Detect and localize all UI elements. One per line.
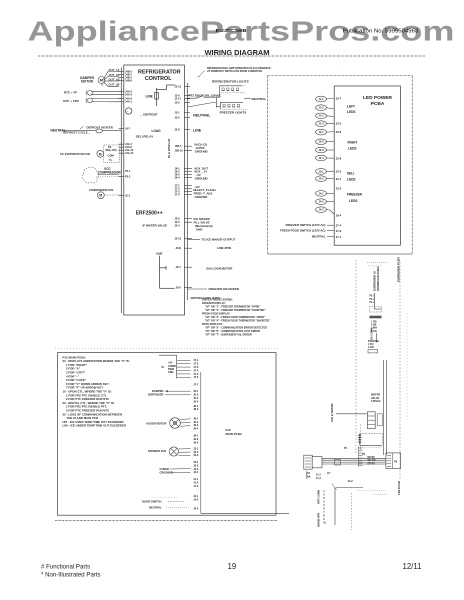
- svg-text:12/11: 12/11: [403, 562, 422, 571]
- dispenser section right dashed rail: [399, 262, 401, 480]
- power wire label group 1: [194, 143, 207, 154]
- svg-text:J2-4: J2-4: [193, 470, 199, 474]
- svg-text:FRZ DOOR: FRZ DOOR: [397, 481, 401, 495]
- svg-text:J7-1: J7-1: [193, 358, 199, 362]
- svg-text:ICE & WATER: ICE & WATER: [330, 403, 334, 421]
- svg-text:FRESH FOOD SWITCH (120V AC): FRESH FOOD SWITCH (120V AC): [280, 229, 326, 233]
- svg-text:J7-3: J7-3: [193, 365, 199, 369]
- svg-text:DELI RELAY: DELI RELAY: [136, 134, 154, 138]
- svg-text:GROUND: GROUND: [195, 149, 208, 153]
- svg-text:11-3: 11-3: [316, 477, 321, 480]
- svg-text:J5-4: J5-4: [193, 400, 199, 404]
- svg-text:J9-1: J9-1: [193, 434, 199, 438]
- svg-text:J7-4: J7-4: [175, 192, 181, 196]
- svg-text:REFRIGERATOR: REFRIGERATOR: [138, 70, 181, 76]
- svg-text:J8-2: J8-2: [193, 407, 199, 411]
- control box left pin labels J4B group: [125, 69, 134, 197]
- control box right pin labels: [175, 84, 184, 289]
- svg-text:J2-8: J2-8: [175, 128, 181, 132]
- svg-text:J9-3: J9-3: [193, 440, 199, 444]
- svg-text:"0F" OR "7" - DISPENSER FAIL E: "0F" OR "7" - DISPENSER FAIL ERROR: [205, 334, 252, 337]
- svg-text:GY: GY: [327, 472, 331, 475]
- svg-text:J7-4: J7-4: [336, 224, 342, 228]
- control box right pin ticks: [184, 87, 192, 288]
- svg-text:J4-2: J4-2: [348, 479, 354, 483]
- svg-text:NEUTRAL: NEUTRAL: [149, 505, 162, 509]
- svg-text:J2-1: J2-1: [318, 130, 324, 134]
- door switch dashed wire: [168, 500, 185, 502]
- svg-text:COM: COM: [108, 153, 115, 157]
- svg-text:TO ICE MAKER OUTPUT: TO ICE MAKER OUTPUT: [202, 238, 236, 242]
- auger motor wires: [180, 419, 190, 427]
- svg-text:J3-1: J3-1: [193, 446, 199, 450]
- right line bus wire: [186, 83, 188, 300]
- small inline marks: [335, 459, 341, 465]
- svg-text:LEDS: LEDS: [347, 110, 356, 114]
- svg-text:PCBA: PCBA: [371, 101, 385, 107]
- dispenser drop wire: [376, 333, 378, 343]
- svg-text:LIM - ICE UNDER TEMP TIME OUT: LIM - ICE UNDER TEMP TIME OUT EXCEEDED: [63, 424, 127, 428]
- evaporator fan motor: [97, 150, 104, 157]
- drawer fan symbol: [169, 447, 178, 456]
- svg-text:120VAC: 120VAC: [371, 399, 381, 403]
- svg-text:J2-8: J2-8: [336, 156, 342, 160]
- svg-text:J4A-3: J4A-3: [125, 93, 133, 97]
- svg-text:LED POWER: LED POWER: [363, 95, 393, 101]
- tiny pin column lower: [323, 490, 326, 525]
- svg-text:LEDS: LEDS: [347, 178, 356, 182]
- svg-text:J5B-10: J5B-10: [175, 149, 184, 153]
- dispenser connector stub rows: [370, 295, 376, 304]
- RTC FF connector: [88, 90, 93, 95]
- svg-text:HTR CONN: HTR CONN: [317, 490, 321, 504]
- water valve label cluster: [371, 393, 381, 404]
- svg-text:J3-3: J3-3: [336, 187, 342, 191]
- drawer fan wires: [178, 449, 190, 456]
- svg-text:J4A-14: J4A-14: [125, 151, 134, 155]
- dispenser vertical pair wires: [383, 360, 385, 455]
- note pointer line: [199, 71, 205, 77]
- damper motor wire labels: [109, 68, 120, 87]
- faint dashed rail far right: [406, 313, 408, 419]
- note about refrigerator lamp: [207, 67, 271, 73]
- control box internal line fuse symbol: [155, 85, 175, 106]
- dotted top connector line: [367, 262, 388, 264]
- svg-text:J1-4: J1-4: [318, 122, 324, 126]
- svg-text:FREEZER ICE MAKER: FREEZER ICE MAKER: [209, 287, 240, 291]
- compressor body: [82, 167, 98, 183]
- right leds label: [348, 141, 358, 151]
- svg-text:J2-3: J2-3: [318, 148, 324, 152]
- svg-text:J6-4: J6-4: [193, 427, 199, 431]
- svg-text:UI & DISPLAY: UI & DISPLAY: [167, 138, 171, 158]
- refrigerator control title: [138, 70, 181, 83]
- svg-text:DISPENSER: DISPENSER: [148, 392, 164, 396]
- evaporator fan wires: [119, 144, 124, 153]
- svg-text:J7-5: J7-5: [193, 372, 199, 376]
- wire color labels: [368, 457, 376, 466]
- svg-text:J3-1: J3-1: [318, 169, 324, 173]
- svg-text:J7-1: J7-1: [336, 235, 342, 239]
- dispenser aux box: [368, 350, 378, 353]
- defrost heater wire: [62, 130, 97, 132]
- svg-text:COMPRESSOR: COMPRESSOR: [98, 171, 122, 175]
- dispenser housing dotted base: [358, 446, 382, 448]
- svg-text:J5-1: J5-1: [193, 389, 199, 393]
- LED connector ovals J3: [316, 169, 327, 182]
- small text bits below connectors: [307, 472, 331, 480]
- svg-text:J2-4: J2-4: [175, 224, 181, 228]
- svg-text:OUT_2B: OUT_2B: [109, 83, 120, 87]
- svg-text:J6-3: J6-3: [193, 423, 199, 427]
- door switch wire and blade: [187, 93, 250, 99]
- svg-text:LEFT: LEFT: [347, 105, 355, 109]
- svg-text:GND: GND: [196, 228, 202, 232]
- dotted links lower right: [357, 489, 386, 491]
- defrost relay coil: [126, 108, 132, 114]
- refrigerator lights lamp box: [220, 86, 243, 93]
- lower box bottom wire to right: [201, 512, 289, 514]
- svg-text:J3-4: J3-4: [176, 265, 182, 269]
- svg-text:J3-2: J3-2: [193, 450, 199, 454]
- svg-text:J3-1: J3-1: [175, 110, 181, 114]
- dispenser labels: [148, 389, 164, 397]
- svg-text:M: M: [99, 194, 102, 198]
- svg-text:J1-3: J1-3: [193, 484, 199, 488]
- svg-text:J2-1: J2-1: [336, 177, 342, 181]
- second dotted connector row: [368, 265, 382, 267]
- svg-text:J2-2: J2-2: [193, 463, 199, 467]
- svg-text:J4-7: J4-7: [125, 127, 131, 131]
- svg-text:J6-1: J6-1: [193, 416, 199, 420]
- svg-text:# Functional Parts: # Functional Parts: [41, 564, 90, 571]
- left neutral bus wire: [120, 68, 122, 314]
- LED oval stub wires: [326, 99, 334, 215]
- neutral dotted wire: [166, 506, 190, 508]
- svg-text:J2-10: J2-10: [175, 237, 182, 241]
- dispenser housing box: [359, 434, 361, 446]
- svg-text:FREEZER SWITCH (120V AC): FREEZER SWITCH (120V AC): [285, 223, 325, 227]
- defrost thermostat symbol: [96, 129, 102, 133]
- svg-text:CUBED: CUBED: [160, 467, 170, 471]
- svg-text:J2-12: J2-12: [175, 84, 182, 88]
- ice maker connector bracket: [159, 355, 177, 378]
- svg-text:IC: IC: [162, 365, 165, 369]
- refrigerator control board outline: [124, 65, 185, 315]
- svg-text:MAIN PCBA: MAIN PCBA: [226, 432, 243, 436]
- svg-text:LEDS: LEDS: [349, 199, 358, 203]
- svg-text:J4-3: J4-3: [318, 208, 324, 212]
- small vertical marks far left of dispenser area: [307, 471, 337, 490]
- svg-text:J1-1: J1-1: [193, 477, 199, 481]
- svg-text:DOOR SWITCH: DOOR SWITCH: [142, 500, 161, 504]
- svg-text:J4-1: J4-1: [193, 494, 199, 498]
- lower connector block C: [386, 453, 401, 469]
- svg-text:AT DOMESTIC SWITCH ON DOOR CON: AT DOMESTIC SWITCH ON DOOR CONDITION: [207, 70, 262, 73]
- display mode legend text block: [202, 299, 271, 337]
- ice maker output wire: [187, 238, 200, 240]
- svg-text:DAMPER: DAMPER: [152, 389, 164, 393]
- svg-text:INTERFACE PCBA: INTERFACE PCBA: [376, 266, 380, 291]
- lower box pin bus: [200, 372, 202, 513]
- svg-text:J5-2: J5-2: [193, 393, 199, 397]
- svg-text:GROUND: GROUND: [195, 195, 208, 199]
- svg-text:OUT_2A: OUT_2A: [109, 73, 120, 77]
- deli leds label: [347, 172, 356, 182]
- svg-text:REFRIGERATOR LIGHTS: REFRIGERATOR LIGHTS: [212, 80, 249, 84]
- svg-text:J7-6: J7-6: [193, 375, 199, 379]
- svg-text:J4-2: J4-2: [318, 200, 324, 204]
- freezer ice maker wire: [187, 288, 207, 290]
- svg-text:Publication No. 5995504963: Publication No. 5995504963: [343, 29, 419, 35]
- lower box pin label column: [193, 358, 199, 510]
- cubed crushed labels: [160, 467, 173, 475]
- dispenser pin strip: [359, 447, 363, 467]
- svg-text:J1-2: J1-2: [193, 480, 199, 484]
- svg-text:J5B-5: J5B-5: [175, 144, 183, 148]
- svg-text:DRAWER FAN: DRAWER FAN: [148, 449, 166, 453]
- svg-text:LINE: LINE: [193, 128, 202, 132]
- evaporator fan connector box: [104, 145, 120, 162]
- LED oval labels: [318, 97, 324, 212]
- svg-text:J2-2: J2-2: [336, 169, 342, 173]
- svg-text:... DEFROST: ... DEFROST: [140, 112, 158, 116]
- dispenser L wire: [374, 293, 381, 309]
- damper motor M symbol: [98, 77, 105, 84]
- ice maker fill valve label group: [194, 217, 213, 232]
- svg-text:AUGER MOTOR: AUGER MOTOR: [146, 421, 166, 425]
- lower connector block B: [312, 457, 322, 468]
- svg-text:J5-1: J5-1: [125, 193, 131, 197]
- svg-text:J3-8: J3-8: [175, 101, 181, 105]
- svg-text:CC EVAPORATOR FAN: CC EVAPORATOR FAN: [60, 152, 90, 156]
- svg-text:LINE: LINE: [156, 251, 163, 255]
- dispenser tiny rows: [371, 320, 377, 333]
- solenoid box: [367, 412, 375, 429]
- svg-text:J2-5: J2-5: [175, 220, 181, 224]
- svg-text:J4A-1: J4A-1: [125, 99, 133, 103]
- svg-text:NTC + FZR: NTC + FZR: [63, 99, 79, 103]
- NTC FZR wires: [91, 98, 121, 100]
- svg-text:J5-3: J5-3: [193, 396, 199, 400]
- dispenser small dashed box: [370, 307, 382, 312]
- led switch stub wires: [327, 225, 334, 237]
- control box left pin ticks: [119, 72, 125, 196]
- svg-text:GND: GND: [168, 371, 174, 374]
- svg-text:J7-4: J7-4: [193, 368, 199, 372]
- svg-text:ERF2500++: ERF2500++: [136, 211, 163, 217]
- LED box pin labels: [336, 96, 342, 239]
- svg-text:J1-3: J1-3: [318, 114, 324, 118]
- svg-text:J2-4: J2-4: [318, 156, 324, 160]
- svg-text:J3-3: J3-3: [193, 453, 199, 457]
- lower horizontal wire: [336, 487, 363, 489]
- svg-text:OUT_1A: OUT_1A: [109, 68, 120, 72]
- LED power PCBA title: [363, 95, 393, 107]
- svg-text:DISPENSER PCBA: DISPENSER PCBA: [397, 257, 401, 282]
- condenser fan motor: [97, 192, 104, 199]
- PCBA notes text block: [63, 355, 130, 427]
- svg-text:GROUND: GROUND: [195, 176, 208, 180]
- VCC compressor label: [98, 167, 122, 175]
- svg-text:J3-5: J3-5: [175, 115, 181, 119]
- condenser fan dashed wire: [104, 194, 121, 196]
- svg-text:J4B-8: J4B-8: [125, 78, 133, 82]
- svg-text:J3-N: J3-N: [176, 246, 182, 250]
- aux wire label group: [194, 166, 208, 180]
- svg-text:J2-2: J2-2: [318, 140, 324, 144]
- damper motor fan-out wires: [102, 72, 119, 87]
- svg-text:J2-7: J2-7: [336, 96, 342, 100]
- ice maker wires to pins: [177, 360, 191, 377]
- dotted separator above lower box: [55, 348, 278, 350]
- dispenser section left dashed rail: [355, 260, 357, 455]
- lower connector block A: [304, 455, 312, 469]
- svg-text:DRAIN HTR: DRAIN HTR: [317, 513, 321, 527]
- svg-text:J7-7: J7-7: [193, 382, 199, 386]
- svg-text:NEUTRAL: NEUTRAL: [193, 114, 211, 118]
- P12 main pcba label: [226, 428, 243, 436]
- dispenser connector strip: [370, 316, 382, 319]
- svg-text:J6-2: J6-2: [193, 420, 199, 424]
- svg-text:J4-2: J4-2: [193, 498, 199, 502]
- freezer lamps: [223, 104, 241, 107]
- svg-text:BK: BK: [307, 475, 311, 478]
- svg-text:LINE 2PIN: LINE 2PIN: [217, 246, 231, 250]
- svg-text:J2-11: J2-11: [175, 97, 182, 101]
- refrigerator lamps: [222, 88, 240, 91]
- svg-text:P5-1: P5-1: [125, 169, 131, 173]
- bottom dashed border: [55, 520, 278, 522]
- svg-text:J3-6: J3-6: [176, 286, 182, 290]
- svg-text:J1-1: J1-1: [318, 97, 324, 101]
- ice water wire: [336, 413, 367, 415]
- svg-text:J2-5: J2-5: [336, 121, 342, 125]
- wire to freezer lights: [187, 98, 220, 108]
- NTC FZR connector: [88, 98, 93, 103]
- svg-text:J7-2: J7-2: [193, 362, 199, 366]
- LED connector ovals J4: [316, 191, 327, 213]
- svg-text:FREEZER LIGHTS: FREEZER LIGHTS: [220, 110, 247, 114]
- display wire label group: [193, 185, 216, 199]
- svg-text:J2-3: J2-3: [193, 467, 199, 471]
- lower left detail box: [58, 353, 277, 516]
- svg-text:* Non-Illustrated Parts: * Non-Illustrated Parts: [41, 572, 101, 579]
- damper motor label: [80, 76, 95, 84]
- svg-text:LEDS: LEDS: [348, 147, 357, 151]
- svg-text:LOAD: LOAD: [152, 129, 162, 133]
- svg-text:FREEZER: FREEZER: [347, 193, 363, 197]
- top dashed border: [38, 55, 425, 57]
- svg-text:DELI: DELI: [347, 172, 354, 176]
- dispenser arrow wires: [165, 391, 191, 395]
- LED connector ovals J2: [316, 129, 327, 161]
- svg-text:J7-9: J7-9: [336, 229, 342, 233]
- svg-text:BALLOON MOTOR: BALLOON MOTOR: [207, 267, 234, 271]
- svg-text:RIGHT: RIGHT: [348, 141, 358, 145]
- svg-text:J4-3: J4-3: [193, 506, 199, 510]
- short dashed rail: [360, 424, 362, 449]
- svg-text:J1-2: J1-2: [318, 106, 324, 110]
- svg-text:RD(+VD): RD(+VD): [106, 148, 117, 152]
- svg-text:LINE: LINE: [146, 95, 153, 99]
- svg-text:J8-4: J8-4: [336, 213, 342, 217]
- svg-text:J2-1: J2-1: [193, 460, 199, 464]
- svg-text:~: ~: [127, 109, 129, 113]
- LED power PCBA box: [334, 86, 400, 245]
- RTC FF wires: [91, 91, 121, 93]
- svg-text:YL: YL: [109, 158, 113, 162]
- auger motor symbol: [170, 418, 181, 429]
- svg-text:EI23BC56IB: EI23BC56IB: [216, 28, 247, 33]
- freezer lights lamp box: [221, 102, 244, 109]
- svg-text:19: 19: [228, 562, 237, 571]
- svg-text:CONTROL: CONTROL: [145, 76, 172, 82]
- svg-text:NEUTRAL: NEUTRAL: [252, 97, 267, 101]
- svg-text:P5-2: P5-2: [125, 174, 131, 178]
- svg-text:M: M: [99, 152, 102, 156]
- compressor dotted wire: [96, 176, 121, 179]
- svg-text:J6-4: J6-4: [175, 175, 181, 179]
- svg-text:J3-2: J3-2: [318, 177, 324, 181]
- LED assembly dashed enclosure: [268, 76, 413, 254]
- connector bus wires: [322, 458, 386, 464]
- lower dashed rail: [351, 493, 353, 530]
- LED connector ovals J1: [316, 96, 327, 126]
- svg-text:J2-6: J2-6: [336, 130, 342, 134]
- left leds label: [347, 105, 356, 115]
- svg-text:OUT_1B: OUT_1B: [109, 77, 120, 81]
- svg-text:J8-1: J8-1: [193, 404, 199, 408]
- svg-text:IF WATER VALVE: IF WATER VALVE: [143, 223, 168, 227]
- svg-text:DEFROST CYCLE ...: DEFROST CYCLE ...: [63, 131, 91, 135]
- dispenser aux text block: [368, 340, 379, 349]
- svg-text:2 OR: 2 OR: [368, 346, 374, 349]
- svg-text:J9-2: J9-2: [193, 437, 199, 441]
- svg-text:CONDENSER FAN: CONDENSER FAN: [89, 188, 113, 192]
- svg-text:MOTOR: MOTOR: [81, 80, 94, 84]
- freezer leds label: [347, 193, 363, 204]
- svg-text:J2-9: J2-9: [175, 216, 181, 220]
- svg-text:NEUTRAL: NEUTRAL: [312, 235, 326, 239]
- svg-text:RTC + FF: RTC + FF: [64, 91, 77, 95]
- lower vertical wire: [334, 488, 336, 526]
- svg-text:J4-1: J4-1: [318, 191, 324, 195]
